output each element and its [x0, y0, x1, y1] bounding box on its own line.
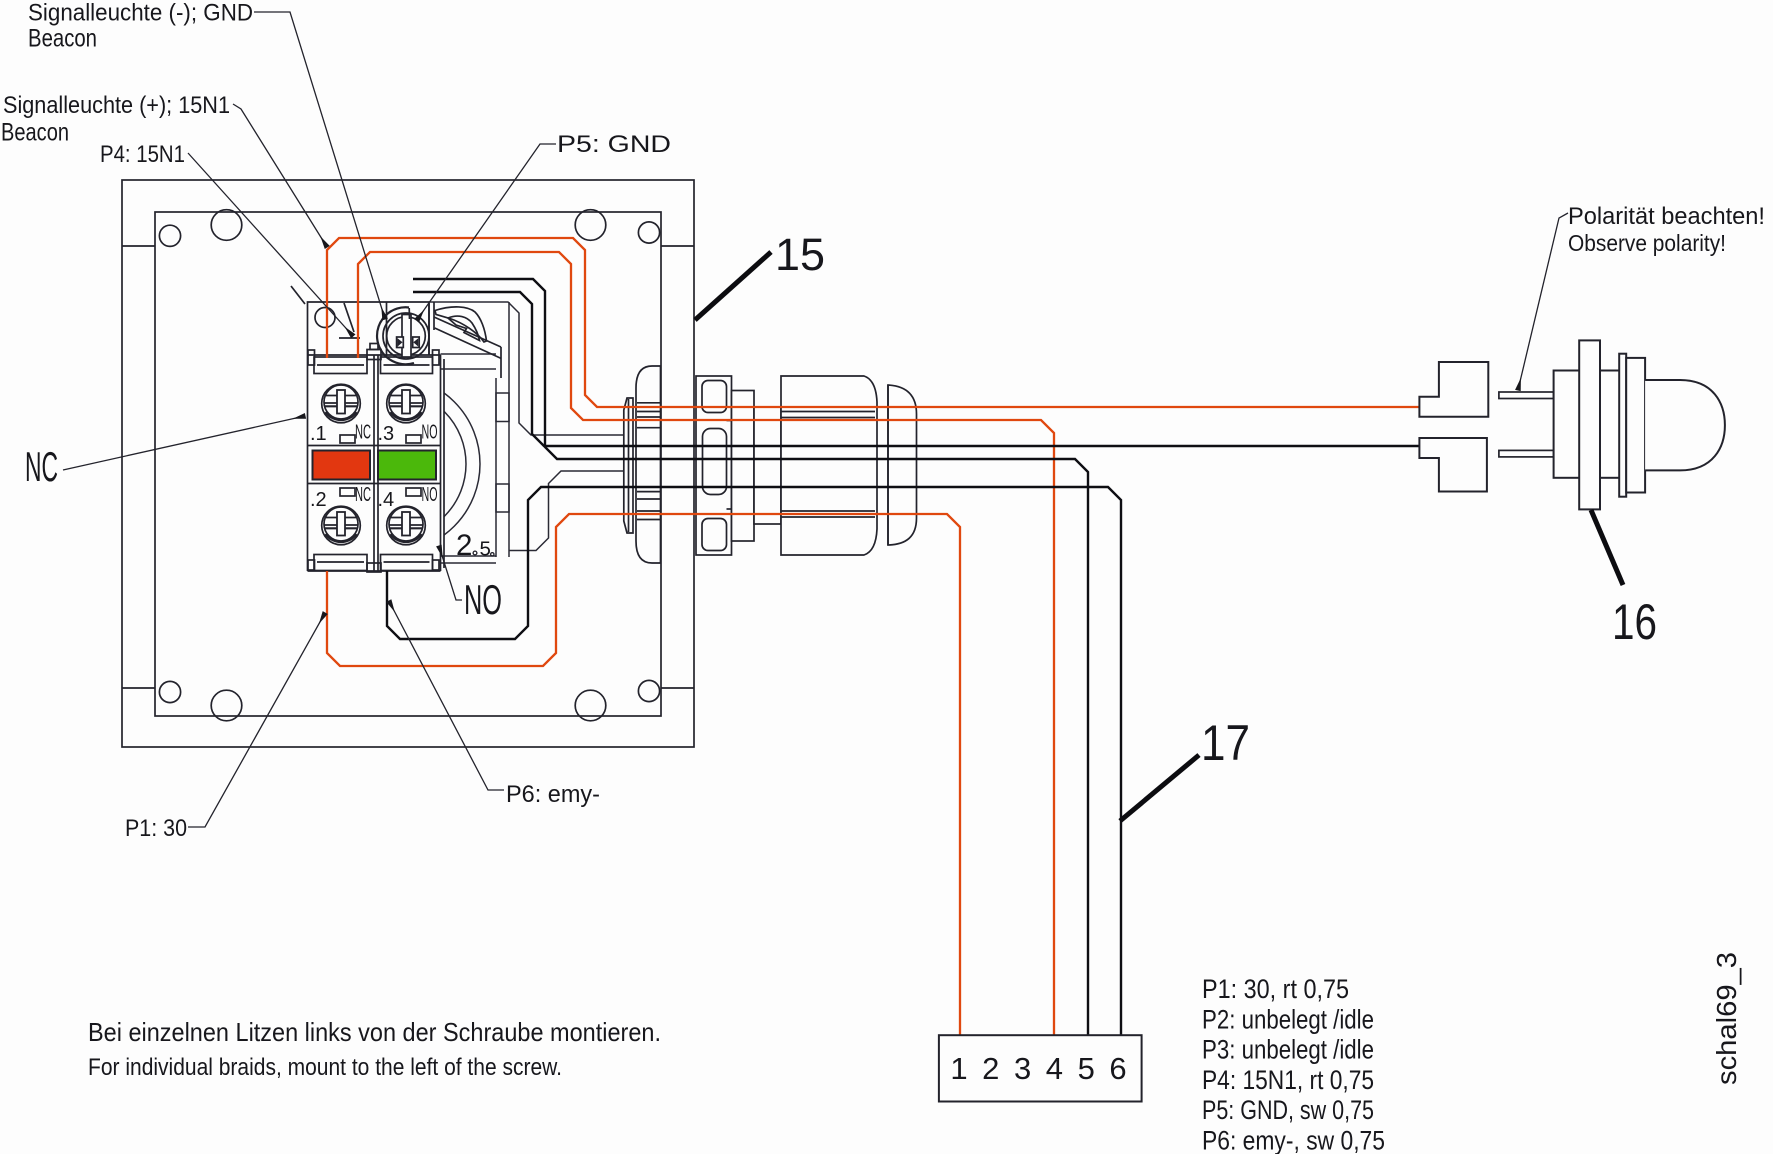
clamp strip bottom-left	[314, 555, 367, 571]
pin list	[1202, 974, 1385, 1154]
block top plate	[308, 302, 430, 355]
svg-text:P3: unbelegt /idle: P3: unbelegt /idle	[1202, 1035, 1374, 1065]
terminal screw .4	[387, 506, 426, 545]
leader NO	[439, 546, 462, 600]
crimp terminal bottom	[1419, 438, 1487, 492]
block left edge	[307, 355, 309, 571]
svg-text:3: 3	[1014, 1051, 1031, 1086]
column divider	[373, 355, 375, 571]
thick pointer 17	[1120, 755, 1199, 821]
svg-text:Polarität beachten!: Polarität beachten!	[1568, 203, 1765, 230]
gland flange washer	[624, 398, 633, 533]
cable gland	[624, 366, 917, 563]
thick pointer 16	[1591, 510, 1623, 585]
svg-text:NC: NC	[25, 443, 58, 490]
leader P4	[188, 153, 353, 336]
leader NC	[63, 416, 305, 470]
svg-text:NO: NO	[422, 484, 438, 506]
plate corner diagonal	[291, 286, 305, 304]
pushbutton body thin outlines	[304, 302, 624, 563]
clamp strip bottom-right	[381, 555, 433, 571]
clamp strip top-right	[381, 357, 433, 374]
lamp window red	[313, 451, 371, 480]
strip end stubs	[308, 350, 315, 365]
svg-text:17: 17	[1201, 715, 1250, 771]
terminal screw .3	[387, 384, 426, 423]
wire P6 emy- (black)	[387, 487, 1121, 1035]
body channel small rect upper	[496, 393, 509, 422]
svg-text:P5: GND: P5: GND	[557, 131, 671, 158]
body strip level lines right	[441, 353, 497, 355]
svg-text:Signalleuchte (-); GND: Signalleuchte (-); GND	[28, 0, 253, 27]
row separator upper	[308, 445, 441, 447]
svg-text:.3: .3	[378, 423, 395, 445]
center tab bottom	[367, 563, 381, 572]
svg-text:5: 5	[1078, 1051, 1095, 1086]
svg-text:Bei einzelnen Litzen links von: Bei einzelnen Litzen links von der Schra…	[88, 1017, 661, 1047]
body lower neck outline	[509, 471, 624, 551]
svg-text:Observe polarity!: Observe polarity!	[1568, 230, 1726, 256]
svg-text:schal69_3: schal69_3	[1711, 952, 1742, 1085]
row separator lower	[308, 483, 441, 485]
svg-text:P1: 30, rt 0,75: P1: 30, rt 0,75	[1202, 974, 1349, 1004]
plate holes large	[211, 210, 242, 241]
block right edge	[440, 355, 442, 571]
plate notch line top-right	[661, 245, 694, 247]
body right channel verticals	[495, 378, 497, 557]
lamp window green	[378, 451, 436, 480]
lamp lens dome	[1645, 380, 1725, 470]
crimp terminal top	[1419, 362, 1488, 417]
terminal screw .2	[322, 506, 361, 545]
svg-text:2: 2	[456, 529, 472, 562]
dimension text 2.5	[456, 529, 494, 562]
lamp pin bottom	[1499, 450, 1554, 457]
gland neck	[732, 391, 755, 542]
lever whale shape	[435, 307, 487, 342]
actuator arc inner	[318, 390, 466, 538]
svg-text:.2: .2	[310, 489, 327, 511]
svg-text:P4: 15N1, rt 0,75: P4: 15N1, rt 0,75	[1202, 1065, 1374, 1095]
svg-text:Beacon: Beacon	[28, 25, 97, 53]
mounting plate inner square	[155, 212, 661, 716]
lamp pin top	[1499, 392, 1554, 399]
C-ring arc around screw	[377, 307, 414, 364]
plate screw holes small	[159, 210, 659, 721]
svg-text:15: 15	[775, 229, 825, 280]
leader lines	[63, 12, 1568, 827]
pin numbers	[950, 1051, 1126, 1086]
svg-text:P5: GND, sw 0,75: P5: GND, sw 0,75	[1202, 1095, 1374, 1125]
plate notch line top-left	[122, 245, 155, 247]
plate notch line bottom-left	[122, 687, 155, 689]
svg-text:For individual braids, mount t: For individual braids, mount to the left…	[88, 1054, 562, 1081]
locknut ribs	[637, 403, 660, 520]
leader P1	[188, 613, 325, 827]
block top edge	[308, 354, 441, 356]
beacon lamp	[1419, 340, 1725, 509]
leader polarity	[1518, 213, 1568, 390]
connector block	[939, 1035, 1142, 1101]
gland slotted ring	[696, 376, 732, 555]
wire P4 15N1 (orange inner)	[358, 252, 1054, 1035]
svg-text:4: 4	[1046, 1051, 1063, 1086]
wire 15N1 beacon+ (orange outer)	[327, 238, 1419, 1035]
svg-text:P6: emy-: P6: emy-	[506, 781, 600, 808]
wire P1 30 (orange bottom)	[327, 514, 960, 1035]
wire GND to beacon (black)	[413, 292, 1419, 446]
clamp strip top-left	[314, 357, 367, 374]
svg-text:P1: 30: P1: 30	[125, 815, 187, 842]
lamp nut	[1626, 358, 1645, 493]
small tab rects near labels	[340, 435, 355, 443]
svg-text:.4: .4	[378, 489, 395, 511]
terminal labels row1	[310, 422, 438, 512]
plate diagonal mark	[344, 303, 354, 332]
svg-text:Signalleuchte (+); 15N1: Signalleuchte (+); 15N1	[3, 92, 230, 119]
gland cap	[888, 385, 917, 545]
svg-text:Beacon: Beacon	[1, 119, 69, 147]
svg-text:NC: NC	[355, 422, 371, 444]
svg-text:16: 16	[1612, 594, 1657, 650]
wire GND to P5 (black)	[387, 279, 1419, 1035]
svg-text:2: 2	[982, 1051, 999, 1086]
plate notch line bottom-right	[661, 687, 694, 689]
svg-text:6: 6	[1109, 1051, 1126, 1086]
terminal screw .1	[322, 384, 426, 545]
svg-text:NO: NO	[464, 576, 502, 623]
svg-text:.1: .1	[310, 423, 327, 445]
screw boss edge	[386, 302, 388, 356]
leader GND	[254, 12, 385, 319]
svg-text:P4: 15N1: P4: 15N1	[100, 141, 185, 168]
gland locknut	[636, 366, 661, 563]
lamp washer	[1619, 354, 1626, 497]
body inner left vertical	[433, 302, 435, 330]
mounting plate outer square	[122, 180, 694, 747]
leader P5	[417, 144, 556, 320]
svg-text:P6: emy-, sw 0,75: P6: emy-, sw 0,75	[1202, 1126, 1385, 1154]
svg-text:NC: NC	[355, 484, 371, 506]
actuator arc outer	[304, 376, 480, 552]
lamp flange	[1579, 340, 1600, 509]
svg-text:5: 5	[480, 538, 491, 561]
contact block	[291, 286, 444, 572]
block bottom edge	[308, 570, 441, 572]
svg-text:NO: NO	[422, 422, 438, 444]
lamp holder body	[1554, 371, 1621, 478]
leader P6	[389, 601, 504, 790]
body channel small rect lower	[496, 484, 509, 512]
lever arm diagonals	[434, 317, 501, 347]
svg-text:P2: unbelegt /idle: P2: unbelegt /idle	[1202, 1004, 1374, 1034]
plate hole	[315, 308, 335, 328]
gland hex body	[781, 376, 877, 555]
ground screw P5 (Phillips)	[377, 302, 501, 378]
thick pointer 15	[695, 252, 771, 320]
leader signal+	[233, 104, 327, 247]
body upper neck outline	[429, 302, 624, 435]
center tab top	[367, 350, 381, 360]
svg-text:1: 1	[950, 1051, 967, 1086]
